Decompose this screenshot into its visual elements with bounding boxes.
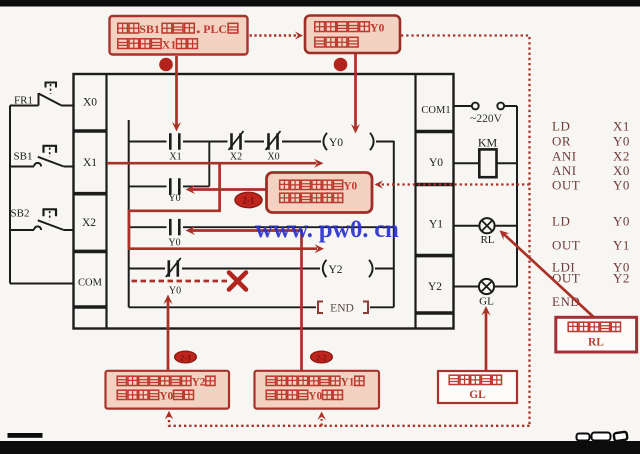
svg-text:GL: GL [469,389,486,401]
svg-text:X1: X1 [162,38,177,52]
red arrow into X1 contact from callout A [175,56,178,126]
contact X0 (NC) rung1 [269,133,278,150]
red arrow into Y0 coil from callout B [354,53,357,128]
svg-text:X2: X2 [82,217,96,229]
svg-text:Y0: Y0 [343,181,357,193]
contact X1 (NO) rung1 [170,133,179,150]
svg-text:COM1: COM1 [421,105,450,116]
red arrow RL box to RL lamp [504,234,594,317]
svg-text:SB1: SB1 [14,151,33,163]
rung3 wire [129,226,394,228]
svg-text:X1: X1 [613,119,630,134]
bottom-right small knobs [577,432,628,442]
red arrow GL box to GL lamp [485,312,488,372]
svg-text:X1: X1 [169,152,181,163]
svg-text:RL: RL [588,337,604,349]
contact Y0 (NC) rung4 [169,260,178,277]
coil Y2 rung4 [323,260,327,277]
svg-text:Y0: Y0 [308,391,322,403]
svg-text:Y0: Y0 [168,193,180,204]
output terminal dividers [416,130,454,134]
contactor coil KM [479,149,496,177]
END instruction box [318,302,323,314]
self-lock callout box [267,173,373,213]
svg-text:LD: LD [552,119,570,134]
dotted path from callout B down right side [401,36,530,426]
dotted branch arrow into callout 2-2 [320,419,322,426]
svg-text:Y2: Y2 [428,281,442,293]
220V terminal circles [472,103,479,110]
rung4 wire [129,268,394,270]
svg-text:FR1: FR1 [14,95,33,107]
svg-text:X0: X0 [83,97,97,109]
svg-text:X2: X2 [230,152,242,163]
svg-text:Y0: Y0 [159,391,173,403]
wire Y2 to GL lamp [454,286,480,288]
red flow line rung3 to box 2-2 [191,231,302,371]
svg-text:SB2: SB2 [11,208,30,220]
rung2 wire [129,185,210,187]
thermal relay contact FR1 [10,83,74,106]
svg-text:GL: GL [479,296,494,308]
svg-text:Y1: Y1 [341,377,355,389]
svg-text:OUT: OUT [552,178,580,193]
svg-text:END: END [330,303,354,315]
wire 220V to right rail [504,105,517,107]
svg-text:Y0: Y0 [613,134,630,149]
svg-text:Y0: Y0 [613,178,630,193]
input terminal column border [105,74,107,329]
red arrow self-lock callout to Y0 contact [192,188,267,191]
wire Y0 to KM coil [454,162,480,164]
rung5 END wire [129,306,394,308]
svg-text:~220V: ~220V [470,113,502,125]
GL callout box: stop indicator lamp GL [438,371,517,403]
svg-text:RL: RL [480,234,494,246]
indicator lamp GL [479,279,494,294]
badge 2-3 [175,351,197,363]
svg-text:Y0: Y0 [168,238,180,249]
wire COM1 to 220V terminals [454,105,472,107]
svg-text:SB1: SB1 [139,22,159,36]
svg-text:ANI: ANI [552,163,577,178]
callout 2-3 box: stop lamp Y2 NC contact opens [106,371,230,409]
svg-text:ANI: ANI [552,148,577,163]
badge 2-2 [311,351,333,363]
svg-text:Y2: Y2 [613,271,630,286]
svg-text:Y0: Y0 [429,157,443,169]
badge 2-1 [235,192,262,207]
wire COM to left rail [10,283,74,285]
svg-text:2-1: 2-1 [243,196,255,206]
svg-text:Y0: Y0 [329,137,343,149]
contact Y0 (NO) rung2 [170,178,179,195]
red X mark [229,273,246,290]
dotted connector callout A to B [250,34,297,36]
svg-text:Y2: Y2 [329,264,343,276]
svg-text:PLC: PLC [203,22,227,36]
pushbutton SB2 [10,209,74,230]
contact X2 (NC) rung1 [232,133,241,150]
output terminal column border [414,74,416,329]
photo frame bottom black bar [0,441,640,454]
svg-text:www. pw0. cn: www. pw0. cn [255,216,399,243]
red flow branch down-left-down (self-lock path) [129,163,317,249]
ladder left power rail [128,120,130,307]
svg-text:2-2: 2-2 [316,353,327,362]
svg-text:X0: X0 [267,152,279,163]
callout 2-2 box: run lamp Y1 NO contact closes [255,371,380,409]
ladder right power rail [393,141,395,308]
coil Y0 rung1 [323,133,327,150]
right power rail [516,106,518,287]
wire GL to rail [494,286,517,288]
red flow line from X1 terminal [107,162,317,165]
svg-text:OUT: OUT [552,238,580,253]
rung2 branch vertical [208,142,210,187]
svg-text:Y0: Y0 [613,214,630,229]
svg-text:Y2: Y2 [192,377,206,389]
svg-text:Y1: Y1 [429,219,443,231]
input terminal dividers [74,129,107,133]
svg-text:X2: X2 [613,148,630,163]
PLC main box [74,74,454,329]
red broken-circuit dashed line rung4 [132,280,228,283]
dotted branch into self-lock callout [381,183,530,185]
red dot under callout A [159,58,173,72]
dotted bottom path to callouts 2-3 / 2-2 [169,415,530,426]
RL callout box: run indicator lamp RL [556,317,637,352]
red line rung4-Y0 to box 2-3 [167,298,170,371]
svg-text:LD: LD [552,214,570,229]
wire RL to rail [495,225,517,227]
svg-text:COM: COM [78,278,103,289]
bottom-left black dash mark [8,433,43,438]
pushbutton SB1 [10,146,74,167]
svg-text:Y0: Y0 [370,21,385,35]
svg-text:KM: KM [478,136,498,150]
svg-text:2-3: 2-3 [180,353,191,362]
photo frame top black bar [0,0,640,7]
left supply rail wire [9,106,11,284]
svg-text:X0: X0 [613,163,630,178]
wire Y1 to RL lamp [454,225,480,227]
contact Y0 (NO) rung3 [170,219,179,236]
svg-text:Y0: Y0 [169,286,181,297]
svg-text:OR: OR [552,134,571,149]
wire KM to rail [497,162,518,164]
svg-text:Y1: Y1 [613,238,630,253]
callout B box: output relay Y0 energized [305,16,400,54]
svg-text:X1: X1 [83,157,97,169]
red dot under callout B [334,58,348,72]
indicator lamp RL [479,218,494,233]
rung1 wire [129,141,394,143]
callout A box: press SB1, X1 closes [110,16,248,55]
